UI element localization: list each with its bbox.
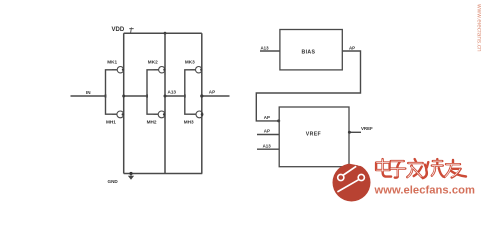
svg-text:www.elecfans.cn: www.elecfans.cn [476, 3, 481, 52]
transistor MH1 [106, 110, 124, 125]
node junction branch1 mid [122, 95, 125, 98]
block VREF U2 [279, 107, 349, 167]
node AP output of BIAS [349, 45, 355, 50]
char 子 [390, 161, 405, 178]
node A13 input to BIAS [260, 45, 280, 51]
char 烧 [423, 159, 444, 178]
node VREF output [348, 126, 373, 134]
node A13 [164, 90, 186, 98]
node AP pin2 [257, 129, 279, 135]
node IN [71, 90, 107, 98]
node A13 pin3 [257, 144, 279, 150]
node junction at VREF pin1 [277, 119, 280, 122]
transistor MH3 [184, 110, 204, 125]
wire IN input [71, 95, 106, 97]
char 电 [376, 159, 391, 177]
wire pin3 [257, 148, 279, 150]
wire A13 pin [260, 50, 280, 52]
wire gate column 3 [185, 70, 196, 114]
transistor MK2 [148, 59, 166, 75]
wire gate column 2 [147, 70, 159, 114]
wire VREF output pin [349, 131, 361, 133]
wire bottom ground rail [124, 173, 203, 175]
wire branch3 vertical [201, 33, 203, 173]
transistor MK1 [107, 59, 124, 75]
node AP output [200, 90, 229, 98]
wire stage2 drain to stage3 gate [165, 95, 185, 97]
transistor MH2 [147, 110, 166, 125]
block BIAS U1 [280, 30, 342, 70]
wire output AP [202, 95, 230, 97]
transistor MK3 [185, 59, 203, 75]
wire gate column 1 [106, 70, 118, 114]
watermark text 电子发烧友 [376, 159, 466, 178]
node VDD [112, 27, 134, 33]
char 发 [407, 159, 423, 177]
wire pin2 [257, 134, 279, 136]
wire branch1 vertical [123, 33, 125, 173]
wire BIAS output routed to VREF pin1 [256, 51, 360, 121]
wire top VDD rail [124, 32, 202, 34]
wire stage1 drain to stage2 gate [124, 95, 147, 97]
node junction top rail branch2 [164, 32, 167, 35]
wire branch2 vertical [164, 33, 166, 173]
svg-text:www.elecfans.com: www.elecfans.com [374, 185, 476, 197]
char 友 [445, 160, 467, 178]
ground [108, 172, 134, 184]
